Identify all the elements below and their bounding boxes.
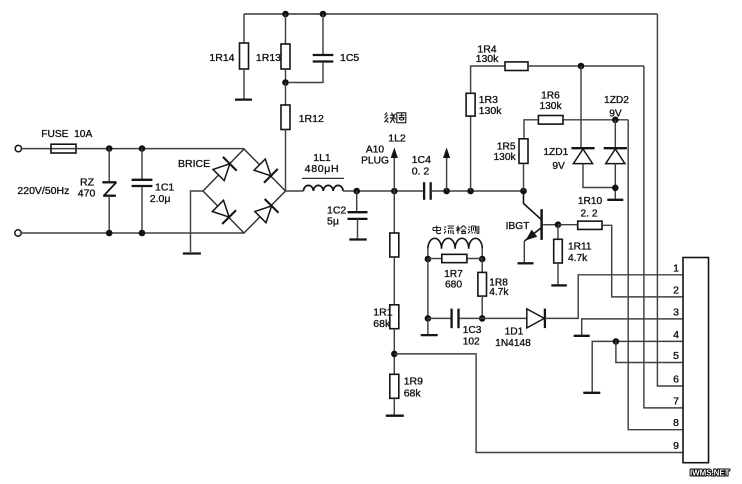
- label FUSE 10A: [41, 129, 92, 140]
- watermark IWMS.NET: [690, 469, 730, 478]
- diode bridge top-left: [213, 157, 237, 181]
- wire divider mid1: [393, 257, 395, 305]
- wire emitter to ground: [523, 241, 525, 262]
- svg-text:1R12: 1R12: [299, 113, 324, 125]
- resistor 1R11: [554, 239, 592, 264]
- svg-text:3: 3: [673, 306, 679, 318]
- wire 1R13 top: [285, 14, 287, 44]
- wire 1R8 top: [481, 259, 483, 272]
- svg-text:1R1: 1R1: [373, 307, 392, 319]
- capacitor 1C3: [452, 309, 482, 348]
- pin 6 label: [673, 374, 679, 386]
- svg-text:4.7k: 4.7k: [489, 287, 509, 298]
- wire pin7 drop: [644, 66, 683, 408]
- svg-text:2.0μ: 2.0μ: [150, 193, 171, 205]
- wire pin6 net: [657, 14, 683, 386]
- inductor 1L1: [302, 152, 344, 191]
- wire 1R11 top: [557, 225, 559, 240]
- wire pin8 drop: [628, 120, 683, 430]
- zener 1ZD1: [543, 147, 594, 172]
- wire 1L1 to 1C4: [343, 190, 424, 192]
- wire 1R3 to 1R4: [471, 66, 505, 93]
- wire sense left down: [427, 259, 429, 318]
- wire 1R9 bottom: [393, 398, 395, 415]
- node RZ bottom: [106, 230, 113, 237]
- capacitor 1C1: [132, 180, 175, 205]
- wire 1C5 top: [322, 14, 324, 54]
- wire pin3 net: [582, 319, 683, 335]
- wire 1C3 to 1D1: [460, 317, 528, 319]
- inductor sense coil: [428, 238, 482, 259]
- resistor 1R13: [256, 44, 290, 69]
- svg-text:1R6: 1R6: [541, 91, 560, 102]
- wire 1R13 bottom: [285, 69, 287, 83]
- label A10 PLUG: [361, 145, 389, 167]
- node coil-A junction: [391, 188, 398, 195]
- svg-text:9V: 9V: [609, 109, 622, 120]
- svg-text:130k: 130k: [476, 53, 500, 65]
- pin 3 label: [673, 306, 679, 318]
- resistor 1R14: [209, 43, 248, 69]
- ground 1R9: [386, 415, 404, 417]
- label coil-name: [384, 113, 405, 123]
- wire base to 1R10: [558, 224, 578, 226]
- wire plug arrow B: [446, 157, 448, 191]
- svg-text:102: 102: [463, 337, 480, 348]
- svg-text:1ZD2: 1ZD2: [604, 95, 629, 106]
- svg-text:9V: 9V: [552, 161, 565, 172]
- wire RZ bottom: [108, 196, 110, 233]
- wire 1C1 bottom: [141, 187, 143, 234]
- wire 1R14 bottom: [243, 69, 245, 99]
- svg-text:0. 2: 0. 2: [412, 166, 430, 178]
- wire divider mid2: [393, 329, 395, 375]
- wire 1R3 bottom: [470, 116, 472, 191]
- label IBGT: [506, 221, 530, 232]
- wire zener feed: [580, 66, 582, 148]
- resistor 1R8: [478, 272, 509, 298]
- capacitor 1C4: [412, 154, 431, 200]
- svg-text:5: 5: [673, 350, 679, 362]
- svg-text:FUSE 10A: FUSE 10A: [41, 129, 92, 140]
- node divider tap: [391, 351, 398, 358]
- node 1R3 bottom junction: [467, 188, 474, 195]
- ground bridge: [183, 252, 201, 254]
- capacitor 1C5: [313, 52, 360, 64]
- resistor 1R3: [466, 93, 502, 117]
- wire plug arrow A: [393, 157, 395, 191]
- node 1ZD2 top: [612, 117, 619, 124]
- wire 1D1 to pin1: [545, 275, 683, 319]
- arrow plug B: [443, 148, 450, 159]
- resistor divider top: [390, 233, 399, 257]
- wire rail to divider: [393, 191, 395, 233]
- label 220V/50Hz: [17, 185, 69, 197]
- wire pin4 net: [592, 341, 683, 391]
- svg-text:IWMS.NET: IWMS.NET: [690, 469, 730, 478]
- label 1L2: [388, 133, 406, 145]
- node 1C1 bottom: [139, 230, 146, 237]
- wire L to fuse: [22, 148, 52, 150]
- svg-text:1C4: 1C4: [412, 154, 431, 166]
- transistor IBGT bar: [540, 209, 543, 240]
- wire 1R5 bottom: [523, 163, 525, 191]
- wire pin5 tie: [616, 341, 683, 362]
- wire 1ZD2 bottom: [614, 164, 616, 199]
- svg-text:2. 2: 2. 2: [581, 208, 598, 219]
- ground 1C2: [349, 238, 367, 240]
- node rail-1C5: [320, 11, 327, 18]
- wire 1C1 top: [141, 149, 143, 179]
- ground 1R11: [551, 284, 567, 286]
- svg-text:1R5: 1R5: [497, 142, 516, 153]
- node collector junction: [520, 188, 527, 195]
- wire 1C5 bottom: [288, 62, 323, 83]
- svg-text:680: 680: [445, 280, 462, 291]
- resistor 1R4: [505, 62, 528, 71]
- wire 1R11 bottom: [557, 263, 559, 285]
- svg-text:4: 4: [673, 329, 679, 341]
- pin 2 label: [673, 284, 679, 296]
- svg-text:4.7k: 4.7k: [568, 253, 588, 264]
- node 1R4-zener: [578, 63, 585, 70]
- svg-text:1R9: 1R9: [404, 376, 423, 388]
- svg-text:A10: A10: [366, 145, 384, 156]
- svg-text:5μ: 5μ: [327, 216, 339, 228]
- wire 1R14 top: [243, 14, 245, 43]
- diode 1D1: [495, 309, 545, 349]
- svg-text:68k: 68k: [373, 318, 391, 330]
- svg-text:130k: 130k: [539, 101, 562, 112]
- node zener common: [612, 185, 619, 192]
- pin 1 label: [673, 262, 679, 274]
- wire sense gnd: [427, 318, 429, 334]
- wire top supply rail: [244, 13, 657, 15]
- wire tap to pin9: [394, 354, 683, 453]
- ground zeners: [607, 199, 623, 201]
- svg-text:1ZD1: 1ZD1: [543, 147, 568, 158]
- label 1R4: [476, 44, 500, 66]
- svg-text:130k: 130k: [479, 105, 503, 117]
- svg-text:1R7: 1R7: [444, 269, 463, 280]
- wire 1R6 to pin8: [562, 119, 628, 121]
- fuse FUSE: [51, 144, 76, 153]
- wire 1R12 top: [285, 83, 287, 106]
- node 1C1 top: [139, 145, 146, 152]
- wire 1R4 to pin7 corner: [528, 65, 644, 67]
- ground sense: [421, 334, 438, 336]
- svg-text:130k: 130k: [494, 152, 517, 163]
- pin 9 label: [673, 440, 679, 452]
- node RZ top: [106, 145, 113, 152]
- node 1C3 left: [425, 315, 432, 322]
- diode bridge bottom-left: [212, 200, 236, 224]
- pin 7 label: [673, 395, 679, 407]
- svg-text:1R14: 1R14: [209, 52, 234, 64]
- transistor IBGT emitter: [525, 228, 542, 242]
- diode bridge top-right: [254, 159, 278, 183]
- varistor RZ: [78, 177, 117, 200]
- wire bridge minus to ground: [191, 191, 204, 252]
- svg-text:1R13: 1R13: [256, 52, 281, 64]
- connector CN1: [683, 258, 709, 463]
- resistor 1R5: [494, 139, 528, 164]
- svg-text:IBGT: IBGT: [506, 221, 530, 232]
- wire 1R10 to pin2: [602, 225, 683, 297]
- svg-text:220V/50Hz: 220V/50Hz: [17, 185, 69, 197]
- wire bridge to 1L1: [286, 190, 304, 192]
- svg-text:1D1: 1D1: [505, 327, 524, 338]
- node coil-B junction: [443, 188, 450, 195]
- terminal L input: [15, 145, 21, 151]
- arrow plug A: [391, 148, 398, 159]
- wire 1R8 bottom: [481, 296, 483, 318]
- wire 1C2 bottom: [357, 219, 359, 239]
- svg-text:1C3: 1C3: [463, 325, 482, 336]
- resistor 1R1: [373, 305, 399, 330]
- ground 1R14: [235, 98, 252, 100]
- node 1R13-1C5-1R12: [282, 79, 289, 86]
- svg-text:470: 470: [78, 188, 96, 200]
- wire 1C2 top: [356, 191, 358, 212]
- capacitor 1C2: [327, 205, 368, 228]
- wire 1C3 left: [428, 317, 451, 319]
- node pin4-pin5: [613, 338, 620, 345]
- node sense left: [425, 256, 432, 263]
- zener 1ZD2: [604, 95, 630, 164]
- wire RZ top: [108, 149, 110, 183]
- svg-text:1C5: 1C5: [340, 52, 359, 64]
- svg-text:1C1: 1C1: [155, 182, 174, 194]
- svg-text:2: 2: [673, 284, 679, 296]
- node sense right: [479, 256, 486, 263]
- svg-text:1N4148: 1N4148: [495, 338, 531, 349]
- svg-text:1L2: 1L2: [388, 133, 406, 145]
- ground IBGT emitter: [518, 262, 534, 264]
- svg-text:480μH: 480μH: [305, 163, 340, 175]
- ground pin4: [583, 392, 600, 394]
- node 1C2 top: [353, 188, 360, 195]
- terminal N input: [15, 230, 21, 236]
- resistor 1R9: [390, 374, 423, 399]
- resistor 1R10: [578, 196, 603, 229]
- ground pin3: [574, 335, 590, 337]
- node rail-1R13: [282, 11, 289, 18]
- pin 8 label: [673, 417, 679, 429]
- wire 1ZD1 bottom: [583, 164, 615, 188]
- wire 1R6 to 1R5: [524, 120, 538, 139]
- svg-text:7: 7: [673, 395, 679, 407]
- label current-detect: [433, 226, 479, 234]
- resistor 1R12: [281, 105, 324, 130]
- svg-text:PLUG: PLUG: [361, 156, 389, 167]
- svg-text:1R11: 1R11: [568, 242, 592, 253]
- transistor IBGT collector: [524, 192, 542, 220]
- wire N to bridge bottom: [21, 232, 244, 234]
- resistor 1R7: [428, 254, 482, 290]
- wire 1R12 bottom: [285, 130, 287, 192]
- wire base: [543, 224, 558, 226]
- pin 5 label: [673, 350, 679, 362]
- node 1C3 right: [479, 315, 486, 322]
- svg-text:68k: 68k: [404, 388, 422, 400]
- pin 4 label: [673, 329, 679, 341]
- svg-text:BRICE: BRICE: [178, 158, 210, 170]
- svg-text:9: 9: [673, 440, 679, 452]
- svg-text:1R10: 1R10: [578, 196, 603, 207]
- wire bridge diamond: [203, 149, 286, 233]
- svg-text:1: 1: [673, 262, 679, 274]
- svg-text:8: 8: [673, 417, 679, 429]
- resistor 1R6: [538, 91, 563, 125]
- diode bridge bottom-right: [255, 199, 279, 223]
- wire fuse to bridge top: [76, 148, 244, 150]
- svg-text:6: 6: [673, 374, 679, 386]
- label BRICE: [178, 158, 210, 170]
- wire 1C4 to collector: [431, 190, 524, 192]
- node base junction: [555, 221, 562, 228]
